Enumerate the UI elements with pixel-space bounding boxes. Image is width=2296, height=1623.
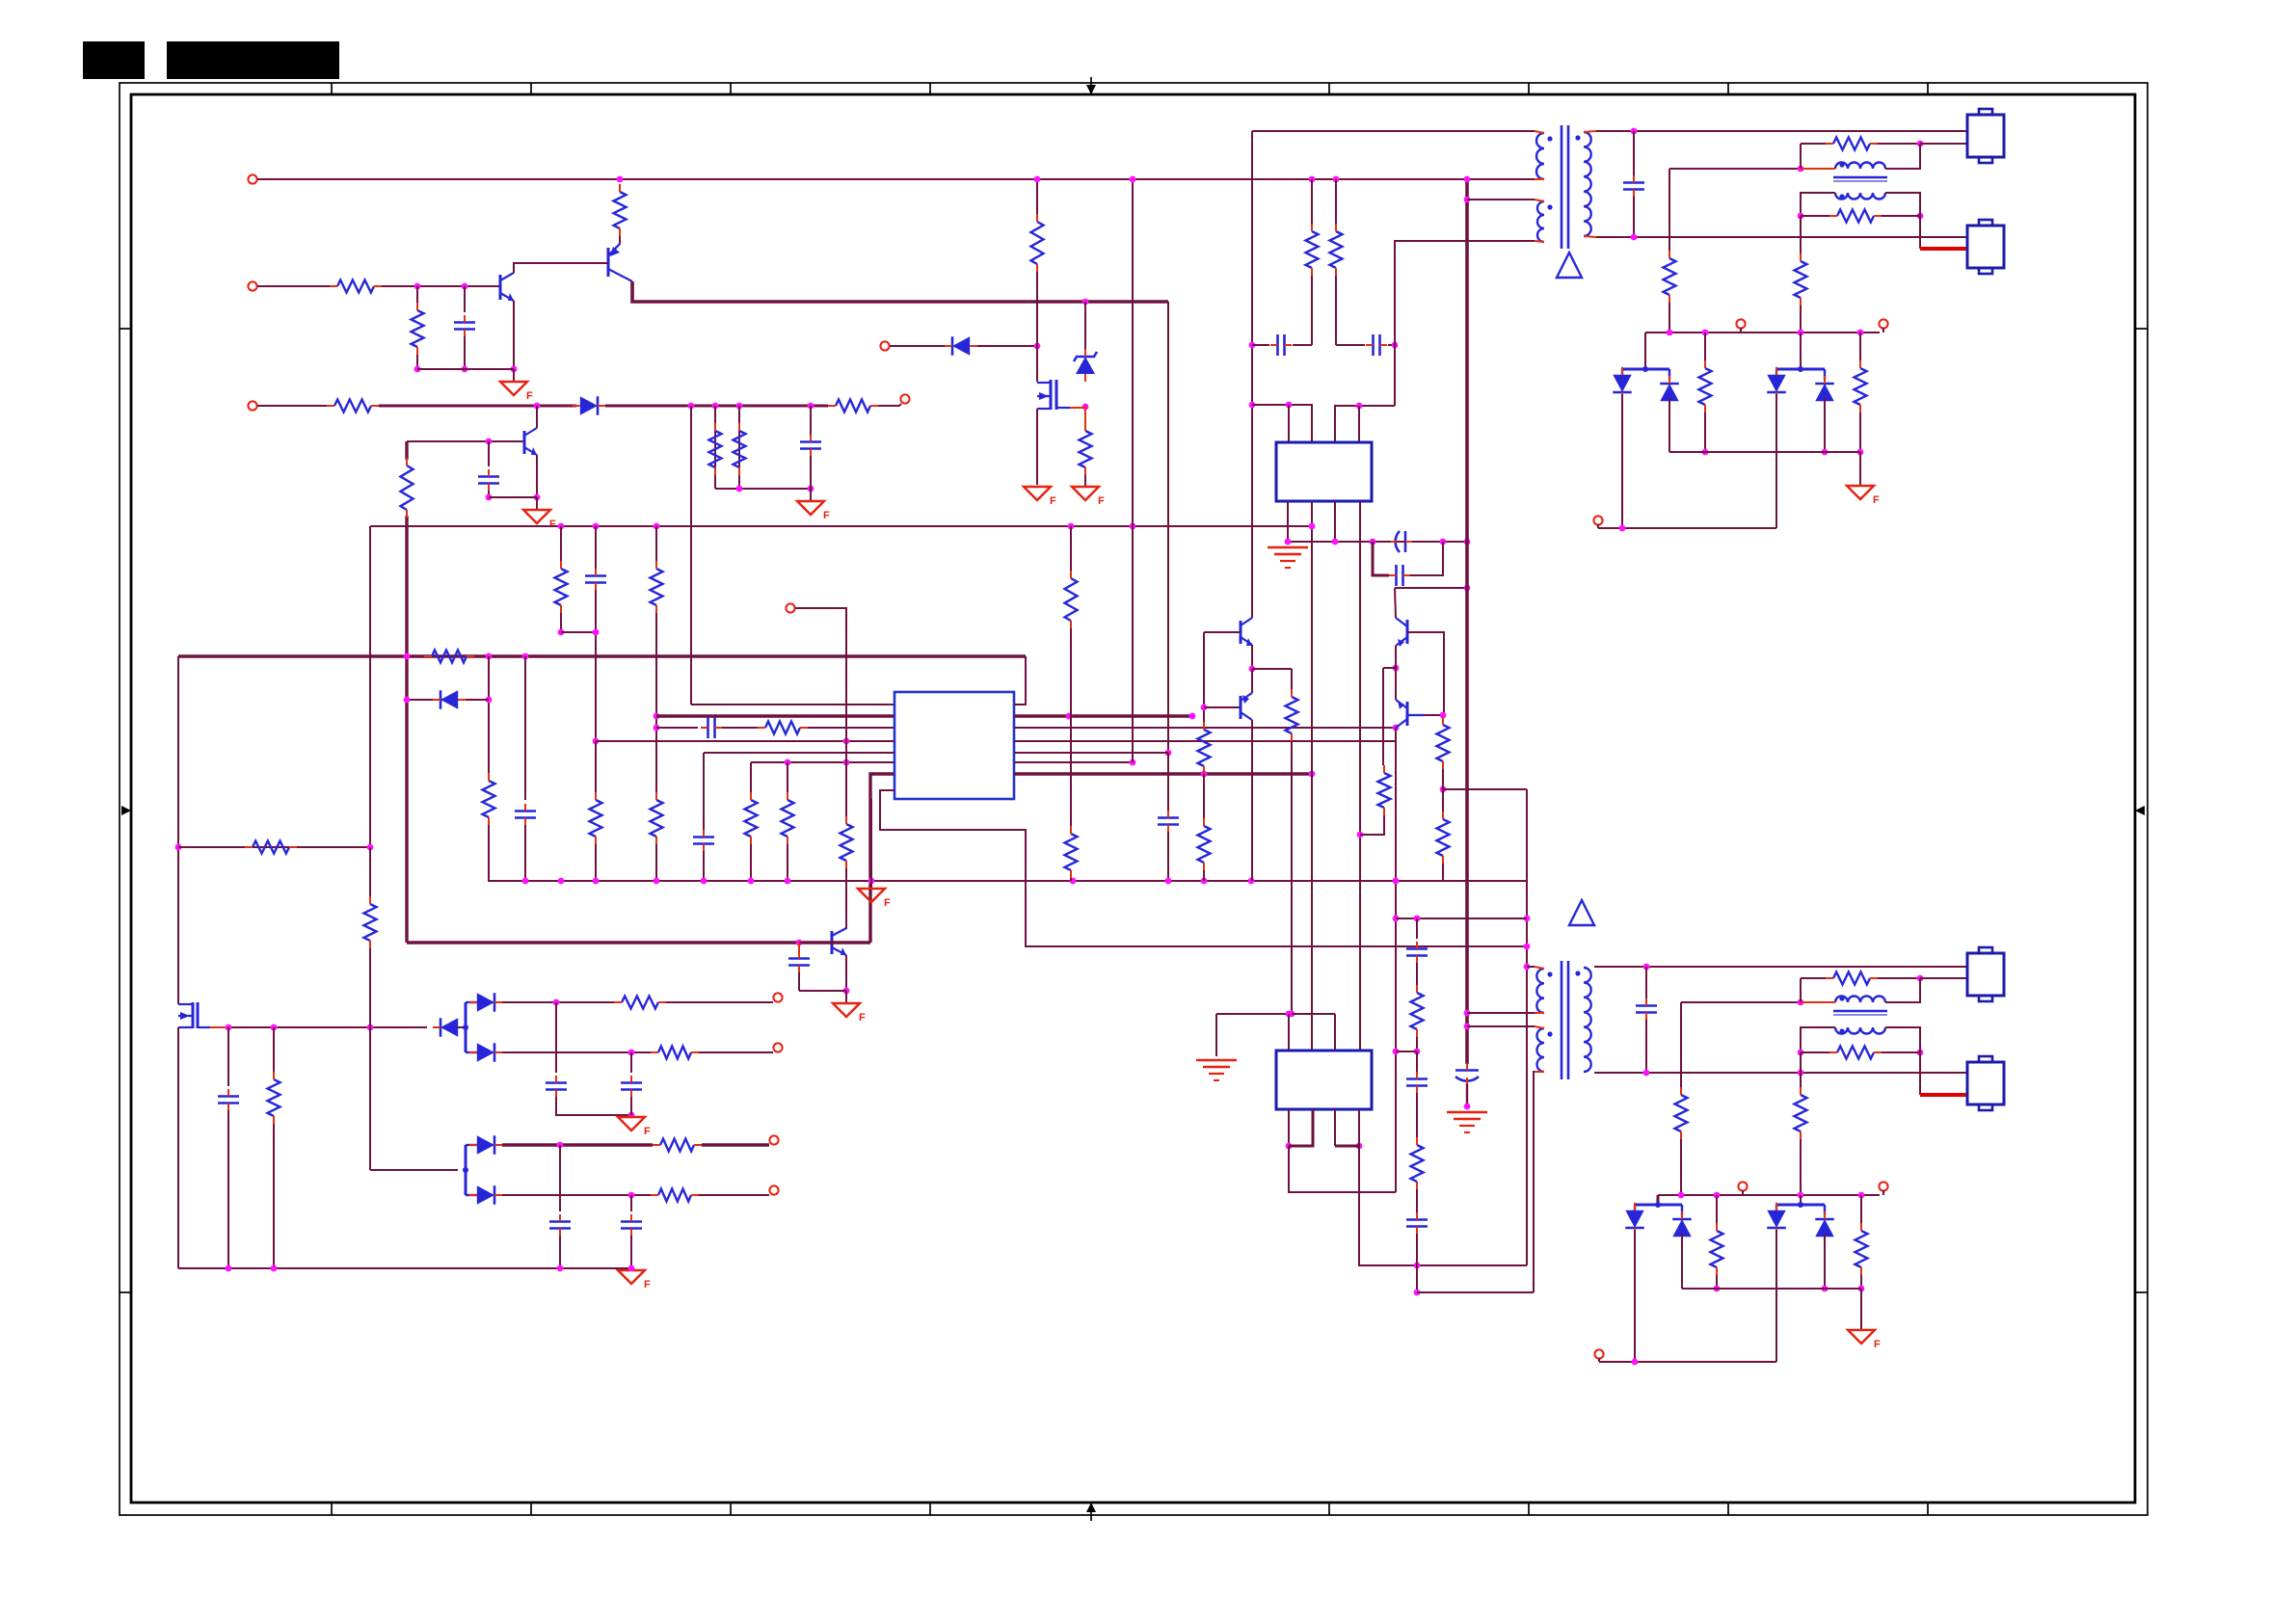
wire Q5 collector [1251,609,1253,618]
inductor choke2 upper winding [1835,997,1885,1003]
terminal P3 (row y421) [248,401,256,410]
wire IC2 pin1 down [1287,501,1289,542]
wire row y769 to IC1 [596,740,894,742]
junction x1299 y358 [1249,342,1256,349]
junction x482 y383 [462,366,468,373]
wire x1410 to y1313 [1359,1109,1527,1265]
junction x1447 y953 [1393,916,1400,922]
junction x1696 y1413 [1632,1359,1639,1366]
terminal P13 [769,1185,778,1194]
junction x878 y1028 [843,988,850,995]
capacitor C17 (x577) [546,1076,567,1097]
junction bus y914/x779 [748,878,755,885]
capacitor C14 (polarized x1522) [1455,1063,1479,1084]
border frame inner [131,94,2135,1503]
MOSFET Q7 (N-ch) [178,1002,210,1028]
junction y1316 d [628,1265,635,1272]
resistor R7 (x422) [401,458,414,518]
wire R1 to Q1 base [382,285,500,287]
junction x878 y791 [843,759,850,766]
wire emitter gnd stub [513,369,515,381]
inductor choke2 lower winding [1835,1027,1885,1034]
junction x1522 y186 [1464,176,1471,183]
thyristor D7 (down) [1613,367,1632,400]
resistor R46 (y1015) [1826,972,1878,985]
resistor R8 (y421) [828,400,878,412]
resistor R33 (x1868) [1795,253,1807,306]
resistor R49 (x1781) [1711,1223,1723,1275]
junction bus y914/x1448 [1393,878,1400,885]
junction bus y914/x681 [654,878,660,885]
wire y207 tap [1467,199,1535,200]
ground F (x1126) [1072,487,1105,507]
junction x1893 y469 [1822,449,1829,456]
wire cap x1695 bottom [1633,197,1635,237]
terminal P16 stub [1598,1358,1600,1362]
border tick top [929,83,931,94]
diode D12b (points right) [469,1043,502,1062]
junction zener/gate [1082,404,1089,411]
choke2 upper left lead [1801,1001,1835,1003]
wire x1175 long vertical [1132,179,1134,762]
junction x1447 y1091 [1393,1049,1400,1055]
junction bus y914/x1212 [1165,878,1172,885]
ground F (x904) [858,889,891,909]
wire x903 riser thick [870,774,894,943]
wire R34 bottom [1704,412,1706,452]
border tick bottom [530,1503,532,1515]
wire diode to MOSFET drain [977,345,1037,347]
wire x577 to y1157 [556,1097,631,1115]
wire cap row2 b [1388,344,1395,346]
junction x1522 y610 [1464,585,1471,592]
resistor R30 (x1732) [1664,251,1676,303]
border tick right [2135,328,2148,330]
junction x1930 y469 [1857,449,1864,456]
wire pack2 out1 thick [502,1143,653,1146]
wire x1447 lower segment a [1395,588,1396,618]
terminal P9 stub [1597,524,1599,528]
zener diode ZD1 [1074,349,1097,382]
choke2 lower right lead [1885,1027,1920,1052]
terminal P15 stub [1882,1190,1884,1195]
wire cap x1695 top [1633,131,1635,175]
resistor R26 (x1249) [1198,722,1211,774]
wire x618 b [595,590,597,741]
wire CN1 pin2 link [1920,143,1967,145]
junction x557 y421 [534,403,541,410]
junction bus y914/x904 [868,878,875,885]
svg-text:F: F [644,1126,651,1137]
wire R9 to drain node [1036,272,1038,346]
terminal P14 (x1808) [1738,1182,1747,1190]
resistor R23 (x1249) [1198,818,1211,870]
wire IC2 pin3 down [1334,501,1336,542]
wire thick row y978 [407,941,870,944]
junction x1868 y1040 [1798,999,1804,1006]
wire y656 row [561,631,596,633]
wire x681 vertical b [655,613,657,792]
ground F (x655 lower) [618,1270,651,1290]
connector CN4 [1967,1056,2004,1110]
wire gnd stub x841 [810,489,812,500]
junction x681 y755 [654,725,660,732]
wire Q8 cap b [798,972,800,991]
wire row y421 c (thick) [605,405,828,408]
resistor R37 (x384) [364,896,377,948]
wire zener feed [1084,302,1086,349]
capacitor C15 (x1695) [1623,175,1644,197]
wire Q5 emitter [1251,645,1253,669]
resistor R39 (y1040) [614,997,666,1009]
wire R11 to ground [1084,475,1086,486]
wire x1470 chain c [1416,1051,1418,1072]
resistor R11 (x1126) [1080,423,1092,475]
svg-text:F: F [644,1279,651,1290]
terminal P4 stub [899,404,901,406]
capacitor C20 (x655) [621,1214,642,1236]
junction x1868 y175 [1798,166,1804,173]
wire T1 sec top lead [1584,131,1596,132]
junction x1584 y1003 [1524,964,1531,971]
wire x1111 b [1070,628,1072,829]
resistor R29b (x1497) [1437,811,1450,864]
junction x1522 y562 [1464,539,1471,545]
resistor R5 (x742) [709,423,722,475]
wire filter res loop left [1800,144,1802,169]
resistor R17 (x618) [590,792,602,844]
terminal P8 stub [1882,328,1884,333]
capacitor C11 (polarized y562) [1391,531,1412,552]
junction x655 y1157 [628,1112,635,1119]
junction x1361 y546 [1309,523,1316,530]
resistor R27 (x1340) [1286,689,1298,741]
border tick bottom [1927,1503,1929,1515]
junction x1447 y692 [1393,665,1400,672]
choke2 lower left lead [1801,1027,1835,1052]
diode D6 (y726 points left) [433,690,466,709]
junction x1708 y1113 [1643,1070,1650,1077]
wire thick bus y681 [178,654,1026,658]
wire Q8 emitter [845,955,847,991]
wire terminal P6 to x878 [795,608,846,816]
capacitor C21 (x1470) [1406,942,1428,963]
junction x1497 y742 [1440,712,1447,719]
capacitor C10 (y358 right) [1366,334,1387,356]
wire y546 bus [370,525,1312,527]
junction Q8 base y978 [796,940,803,946]
resistor R38 (x284) [268,1072,280,1124]
ground F (x1930) [1847,486,1880,506]
wire x577 drop [555,1002,557,1073]
wire x1470 chain e [1416,1189,1418,1212]
junction x1781 y1240 [1714,1192,1721,1199]
transistor Q12 (PNP lower of pair B) [1396,700,1425,728]
resistor R15 (x779) [745,792,758,844]
wire x1386 a [1335,179,1337,224]
junction x1470 y1341 [1414,1290,1421,1296]
junction x1109 y743 [1066,713,1073,720]
wire row y755 b [722,727,758,729]
wire x817 to bus [787,844,788,881]
resistor R24 (x1361) [1306,224,1319,276]
wire y694 row [1252,668,1292,670]
wire clamp row y345 [1645,332,1880,333]
wire y1337 row [1682,1288,1861,1290]
wire x1732 chain [1669,169,1670,251]
junction x1175 y791 [1130,759,1136,766]
wire gnd row y383 [417,368,514,370]
transformer T1 primary 2 [1537,201,1544,242]
wire IC3 pin3 lead [1334,1014,1336,1051]
clamp group2 bus [1776,366,1825,380]
wire MOSFET gate lead [210,1026,228,1028]
choke lower left lead [1801,193,1835,216]
T1 polarity dot p1 [1547,136,1552,141]
wire IC3 pin1 lead [1288,1014,1290,1051]
junction y546/x1111 [1068,523,1075,530]
wire y562 row [1288,541,1467,543]
wire gnd stub x1930 [1859,452,1861,485]
terminal P16 (x1659) [1594,1349,1603,1358]
wire filter2 res loop corner [1801,977,1826,979]
wire x1076 from y186 [1036,179,1038,220]
capacitor C19 (x581) [549,1214,571,1236]
redaction box 2 [167,41,339,79]
choke polarity dot lower [1839,194,1844,199]
wire center-tap rail x1522 thick a [1465,179,1469,1064]
wire T2 p1 top wire [1527,966,1535,968]
wire x582 b [560,613,562,632]
border arrow top [1086,77,1096,94]
svg-text:F: F [823,510,830,521]
junction x655 y1240 [628,1192,635,1199]
resistor R35 (x1930) [1855,360,1867,412]
wire x1249 to bus [1203,870,1205,881]
wire x1470 chain f [1416,1234,1418,1292]
wire IC1 right row y731 riser [1014,656,1026,705]
wire D10 anode drop [1824,398,1826,452]
junction x1237 y743 [1189,713,1196,720]
junction x1299 y694 [1249,666,1256,673]
wire MOSFET gate to zener node [1070,407,1085,409]
wire IC2 pin1 lead [1288,405,1290,442]
junction x1584 y953 [1524,916,1531,922]
wire y1028 row [799,990,846,992]
wire D8 anode drop [1669,398,1670,452]
junction x1299 y420 [1249,402,1256,409]
border tick left [120,328,131,330]
connector CN3 [1967,947,2004,1001]
junction x1337 y1052 [1286,1011,1293,1018]
wire x545 to bus [524,825,526,881]
ground F (x841) [797,501,830,521]
wire x185 lower vertical [177,1027,179,1268]
wire filter2 res loop left [1800,978,1802,1002]
inductor choke upper winding [1835,163,1885,169]
junction x767 y507 [736,486,743,492]
wire ground bus y914 [525,880,1527,882]
resistor R22 (x1111) [1065,826,1078,878]
wire T1 p2 bot lead [1535,241,1544,242]
svg-text:F: F [1873,494,1880,506]
wire x1212 drop [1167,302,1169,753]
wire y1091 link [1396,1051,1417,1052]
resistor R50 (x1931) [1855,1223,1868,1275]
junction x1992 y149 [1917,141,1924,147]
ground F (x557) [523,510,556,530]
resistor R41 (y1188) [653,1139,702,1152]
transistor Q6 (PNP) [1241,693,1252,720]
wire bus gnd stub [870,881,872,888]
border tick top [1927,83,1929,94]
resistor R47 (y1092) [1829,1047,1882,1059]
junction x1497 y562 [1440,539,1447,545]
diode D10 (up) [1815,376,1834,409]
op-amp U1 (PWM controller IC1) [894,692,1014,799]
terminal P1 (top input) [248,174,256,183]
resistor R13 (x681) [651,561,663,613]
transformer T1 secondary [1584,132,1591,236]
terminal P5 (diode input) [880,341,889,350]
op-amp U3 (IC3 optocoupler) [1276,1051,1372,1109]
junction x1522 y1065 [1464,1024,1471,1030]
transformer T1 primary 1 [1536,133,1544,179]
junction x1931 y1240 [1858,1192,1865,1199]
wire to terminal P4 [878,405,899,407]
thyristor D9 (down) [1767,367,1786,400]
thyristor D14 (down) [1625,1203,1644,1236]
wire x384 vertical b [369,847,371,896]
wire x1470 chain top [1416,918,1418,939]
wire x582 a [560,526,562,561]
junction x577 y1040 [553,999,560,1006]
resistor R12 (x582) [555,561,568,613]
terminal P4 (y421 right) [900,394,909,403]
svg-text:F: F [859,1012,866,1024]
wire x1470 chain [1416,963,1418,985]
wire out2 to terminal [699,1051,773,1053]
wire Q3 emitter [536,455,538,497]
wire Q5 base [1204,631,1241,633]
wire Q1 collector [514,263,608,273]
wire Q6 emitter [1251,669,1253,693]
resistor R34 (x1769) [1699,360,1712,412]
junction bus y914/x730 [701,878,707,885]
wire x730 drop [703,753,705,831]
wire x655 to y1157 [630,1097,632,1115]
junction x681 y743 [654,713,660,720]
choke2 upper right lead [1885,978,1920,1002]
junction y186/x1361 [1309,176,1316,183]
junction y546/x618 [593,523,600,530]
wire y1316 bottom row [178,1267,631,1269]
wire pack2 out2 [502,1194,651,1196]
resistor R45 (x1744) [1675,1087,1688,1139]
wire res32 left lead [1801,215,1829,217]
wire CN4 pin2 hot [1920,1093,1967,1097]
redaction box 1 [83,41,145,79]
wire row y791 [751,761,894,763]
diode D13a (points right) [469,1135,502,1155]
wire Q8 base stub [799,942,832,944]
border tick top [331,83,333,94]
wire T2 p1 bot lead [1535,1012,1544,1014]
wire y1341 row [1417,1291,1534,1293]
junction x1448 y755 [1393,725,1400,732]
capacitor C2 (x507) [478,469,499,491]
junction x582 y656 [558,629,565,636]
capacitor C9 (y358 left) [1270,334,1292,356]
ground F (x533) [500,382,533,402]
resistor R19 (x878) [841,816,853,868]
wire x284 drop [273,1027,275,1072]
wire sec bottom net y246 [1596,236,1967,238]
junction x1212 y781 [1165,750,1172,757]
diode D1 (y421) [573,396,605,415]
wire center-tap rail x1522 thick b [1466,1083,1468,1106]
wire R3 bottom [416,355,418,369]
wire T2 sec bottom net y1113 [1594,1072,1967,1074]
wire cap2 loop [1373,542,1389,575]
wire row y755 c [808,727,894,729]
wire x730 to bus [703,851,705,881]
triangle warning mark (top) [1557,253,1582,278]
wire x384 vertical [369,526,371,847]
resistor R25 (x1386) [1330,224,1343,276]
wire filter res loop corner [1801,143,1826,145]
svg-text:F: F [526,390,533,402]
junction x1584 y982 [1524,944,1531,950]
resistor R4 (y421) [327,400,379,412]
junction x1424 y562 [1370,539,1376,545]
wire cap row2 y358 [1336,344,1365,346]
junction bus y914/x582 [558,878,565,885]
junction x1868 y224 [1798,213,1804,220]
wire IC3 pin3 down [1334,1109,1336,1146]
wire D16 cathode drop [1775,1230,1777,1362]
choke2 core [1833,1011,1887,1015]
junction x581 y1188 [557,1142,564,1149]
wire x1436 chain [1382,668,1384,765]
junction y186/x643 [617,176,624,183]
wire IC1 pin loop bottom-left [880,790,1527,946]
clamp2 group1 bus [1635,1202,1682,1215]
wire filter res right [1878,143,1920,145]
junction x1076 y359 [1034,343,1041,350]
wire R19 to Q8 collector [845,868,847,929]
wire T1 p2 top lead [1535,200,1544,201]
resistor R20 (x507) [483,773,495,825]
junction x1447 y358 [1392,342,1399,349]
wire zener to R11 [1084,407,1086,425]
dual diode pack D13 common node [463,1145,477,1195]
wire cap row1 y358 [1252,344,1269,346]
junction y546/x582 [558,523,565,530]
terminal P11 [773,1043,782,1051]
wire cap row1 b [1293,344,1312,346]
junction y1316 a [226,1265,232,1272]
choke upper right lead [1885,144,1920,169]
wire row y769 right [1014,740,1396,742]
junction x237 y1066 [226,1024,232,1031]
junction x1992 y1092 [1917,1050,1924,1056]
border tick top [1727,83,1729,94]
wire x618 a [595,526,597,569]
junction x545 y681 [522,653,529,660]
wire x1447 lower segment b [1395,728,1397,1192]
wire x1386 b [1335,276,1337,345]
